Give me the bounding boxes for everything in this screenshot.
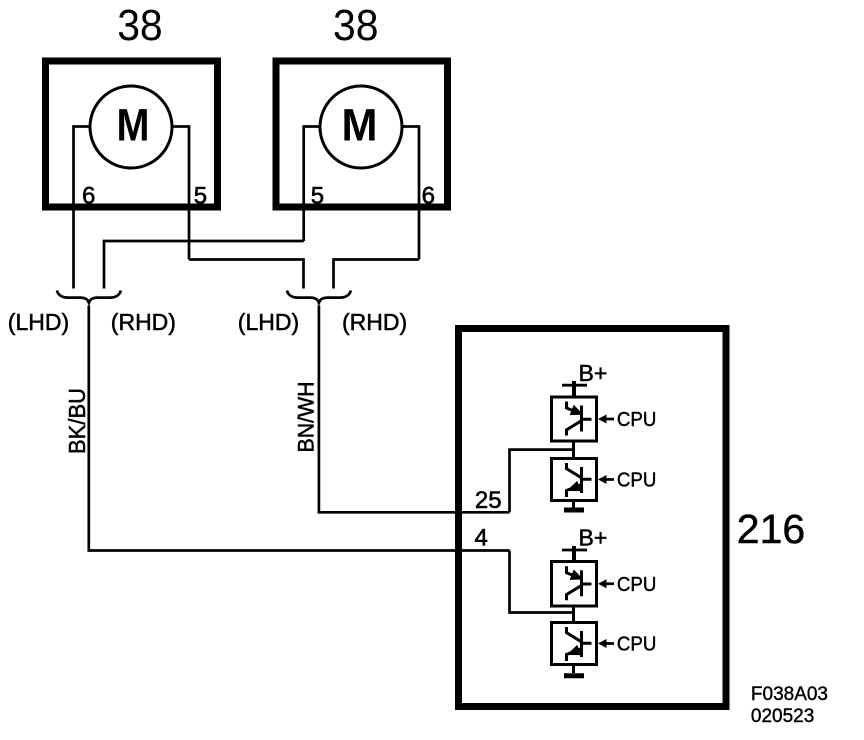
svg-text:CPU: CPU [617,470,657,492]
svg-text:(LHD): (LHD) [238,309,299,335]
svg-text:020523: 020523 [751,706,814,727]
wire M2 pin5 [304,127,320,242]
transistor Q4 box [552,623,597,665]
svg-text:B+: B+ [579,525,608,551]
transistor Q1 box [552,397,597,441]
CPU arrow Q3 [598,574,656,596]
transistor Q1 symbol [567,402,592,436]
svg-text:6: 6 [82,183,95,210]
wire M1 pin6 [74,127,91,289]
svg-text:(LHD): (LHD) [8,309,69,335]
wire M1 pin5 [172,127,189,260]
svg-text:(RHD): (RHD) [342,309,407,335]
svg-text:38: 38 [117,1,163,50]
wire M2 pin6 to right brace RHD [334,260,420,289]
svg-text:CPU: CPU [617,574,657,596]
wire Q3-Q4 junction stub [572,606,575,624]
ground bar Q2 [564,508,584,513]
transistor Q2 symbol [567,463,592,497]
B+ stub upper [572,381,576,397]
svg-text:B+: B+ [579,360,608,386]
svg-text:216: 216 [737,506,805,552]
wire M2 pin6 [402,127,419,260]
svg-text:25: 25 [475,487,502,514]
brace right (LHD/RHD merge) [287,291,351,303]
svg-text:CPU: CPU [617,634,657,656]
wire crossover upper (M2 pin5 to left brace RHD) [104,241,304,289]
wire pin 25 to Q1/Q2 junction [510,450,574,513]
motor box 38 left [46,61,218,207]
CPU arrow Q4 [598,634,656,656]
ECU box 216 [459,329,727,707]
wire BN/WH to pin 25 [319,306,510,513]
wire Q1-Q2 junction stub [572,441,575,459]
svg-text:4: 4 [475,525,488,552]
svg-text:F038A03: F038A03 [751,684,828,705]
transistor Q4 symbol [567,627,592,661]
wire M1 pin5 to right brace LHD [189,260,304,289]
svg-text:CPU: CPU [617,409,657,431]
ground bar Q4 [564,673,584,678]
svg-text:BK/BU: BK/BU [64,388,90,454]
motor M1 circle [90,86,172,168]
wire BK/BU to pin 4 [89,306,510,551]
svg-text:6: 6 [422,183,435,210]
transistor Q3 symbol [567,566,592,600]
svg-text:M: M [117,100,150,151]
svg-text:M: M [342,100,378,151]
svg-text:38: 38 [333,1,379,50]
CPU arrow Q2 [598,470,656,492]
B+ terminal bar upper [562,384,587,387]
svg-text:5: 5 [194,183,207,210]
transistor Q3 box [552,562,597,607]
B+ terminal bar lower [562,549,587,552]
svg-text:5: 5 [311,183,324,210]
ground stub Q4 [572,665,575,674]
transistor Q2 box [552,459,597,501]
brace left (LHD/RHD merge) [57,291,121,303]
ground stub Q2 [572,501,575,509]
motor box 38 right [276,61,448,207]
svg-text:(RHD): (RHD) [111,309,176,335]
motor M2 circle [320,86,402,168]
B+ stub lower [572,546,576,562]
wire pin 4 to Q3/Q4 junction [510,551,574,613]
svg-text:BN/WH: BN/WH [294,382,319,453]
CPU arrow Q1 [598,409,656,431]
